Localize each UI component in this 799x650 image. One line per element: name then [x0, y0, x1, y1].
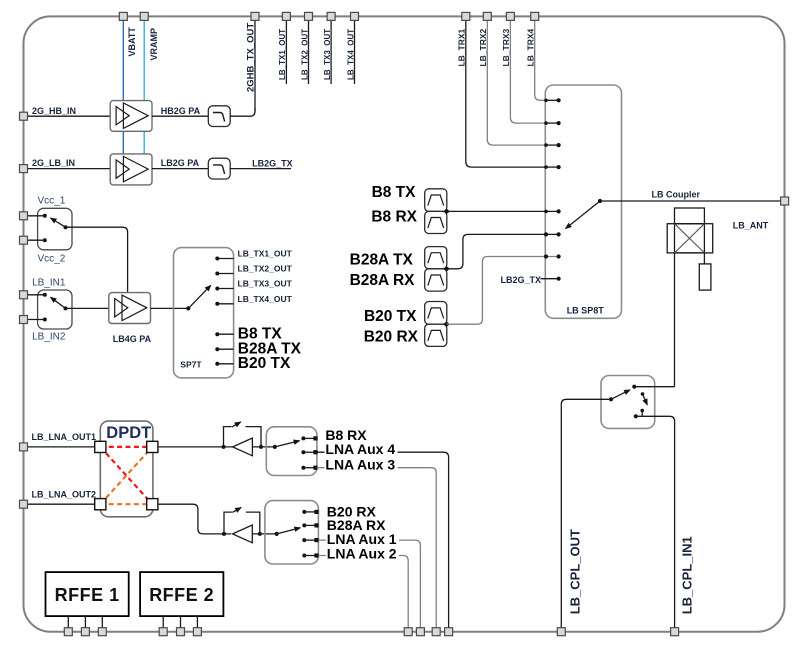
- switch LB_IN SPDT: [38, 290, 72, 329]
- coupler wide box: [667, 224, 713, 253]
- svg-text:LB_TRX2: LB_TRX2: [478, 28, 488, 66]
- svg-text:LNA Aux 4: LNA Aux 4: [325, 441, 395, 457]
- DPDT orange path straight: [100, 503, 152, 505]
- svg-text:LB_CPL_IN1: LB_CPL_IN1: [680, 536, 695, 614]
- terminal LNA Aux 4: [445, 628, 453, 636]
- svg-text:LB_TRX4: LB_TRX4: [526, 28, 536, 66]
- svg-text:LB_TX3_OUT: LB_TX3_OUT: [238, 279, 293, 289]
- LNA2 amplifier: [233, 525, 253, 543]
- svg-text:LB_TX4_OUT: LB_TX4_OUT: [238, 294, 293, 304]
- node SP8T in LB_TRX1: [544, 165, 561, 169]
- node SP8T in B28A: [544, 232, 561, 236]
- wire LB_TX4_OUT stub: [354, 20, 356, 84]
- switch SP7T: [174, 248, 234, 378]
- wire LB4G PA out: [151, 307, 189, 309]
- LNA1 amplifier: [233, 438, 253, 456]
- node B20 junction: [445, 322, 449, 326]
- svg-text:RFFE 1: RFFE 1: [55, 585, 120, 605]
- switch RX1 SP3T: [266, 427, 317, 476]
- svg-text:LB_TX2_OUT: LB_TX2_OUT: [300, 29, 309, 80]
- wire LB2G_TX stub: [230, 168, 291, 170]
- coupler LB_ANT top box: [675, 208, 705, 224]
- RX1 throw LNA Aux 4: [301, 450, 317, 454]
- SP7T throw LB_TX3_OUT: [215, 287, 233, 291]
- wire Vcc_2 in: [27, 239, 45, 241]
- changeover top contact: [632, 385, 674, 389]
- svg-text:LB2G_TX: LB2G_TX: [252, 159, 293, 169]
- svg-text:LB_TX1_OUT: LB_TX1_OUT: [238, 249, 293, 259]
- terminal 2GHB_TX_OUT: [251, 12, 259, 20]
- changeover pole arrow: [609, 390, 630, 402]
- terminal VRAMP: [140, 12, 148, 20]
- wire LB_TX2_OUT stub: [308, 20, 310, 84]
- terminal RFFE2 pin1: [159, 628, 167, 636]
- wire Vcc_1 in: [27, 215, 45, 217]
- block RFFE 1: [46, 572, 129, 616]
- wire B20 to SP8T: [447, 257, 559, 325]
- svg-text:2G_HB_IN: 2G_HB_IN: [32, 106, 76, 116]
- svg-text:B20 RX: B20 RX: [364, 329, 419, 346]
- svg-text:LB_IN1: LB_IN1: [32, 278, 66, 289]
- wire coupler left drop: [674, 253, 676, 387]
- svg-text:LB2G PA: LB2G PA: [161, 158, 200, 168]
- terminal Vcc_1: [20, 212, 28, 220]
- wire LB_CPL_OUT: [561, 399, 611, 628]
- wire LNA Aux 4: [317, 452, 449, 628]
- svg-text:LB_ANT: LB_ANT: [733, 221, 769, 231]
- svg-text:LB_TRX1: LB_TRX1: [457, 28, 467, 66]
- terminal 2G_HB_IN: [20, 112, 28, 120]
- wire LNA Aux 1: [318, 540, 420, 628]
- node SP8T in LB_TRX3: [544, 121, 561, 125]
- wire LNA Aux 2: [318, 556, 408, 628]
- svg-text:LB SP8T: LB SP8T: [567, 306, 605, 316]
- SP7T throw LB_TX2_OUT: [215, 272, 233, 276]
- SP8T pole arrow: [566, 199, 603, 229]
- SP7T throw LB_TX1_OUT: [215, 257, 233, 261]
- svg-text:Vcc_2: Vcc_2: [38, 254, 66, 265]
- wire RFFE2 pin3: [196, 616, 198, 628]
- SP7T throw LB_TX4_OUT: [215, 302, 233, 306]
- DPDT port bottom-left: [95, 499, 106, 510]
- svg-text:LB_CPL_OUT: LB_CPL_OUT: [568, 529, 583, 614]
- terminal RFFE2 pin2: [177, 628, 185, 636]
- terminal RFFE1 pin2: [81, 628, 89, 636]
- wire LB_TRX3: [510, 20, 546, 123]
- svg-text:SP7T: SP7T: [180, 360, 202, 370]
- op-amp LB4G PA: [109, 293, 151, 324]
- wire filter to 2GHB_TX_OUT: [230, 108, 255, 116]
- wire Vcc pole to LB4G PA: [66, 227, 128, 292]
- DPDT red path straight: [100, 446, 152, 448]
- op-amp HB2G PA: [110, 101, 152, 132]
- filter HB2G lowpass: [208, 106, 230, 127]
- wire LB_TRX1: [466, 20, 546, 167]
- terminal 2G_LB_IN: [20, 165, 28, 173]
- svg-text:LNA Aux 1: LNA Aux 1: [327, 531, 397, 547]
- DPDT port top-left: [95, 441, 106, 452]
- terminal LB_TX1_OUT: [282, 12, 290, 20]
- terminal LNA Aux 1: [416, 628, 424, 636]
- terminal LNA Aux 2: [404, 628, 412, 636]
- SP7T throw B20 TX: [215, 362, 233, 366]
- wire LNA1 to RX switch 1: [252, 446, 274, 448]
- SP7T throw B8 TX: [215, 332, 233, 336]
- wire HB2G PA out: [152, 115, 208, 117]
- svg-text:LB_TX1_OUT: LB_TX1_OUT: [278, 29, 287, 80]
- LNA2 bypass switch: [222, 508, 262, 536]
- wire LB_LNA_OUT2: [27, 503, 95, 505]
- terminal LB_LNA_OUT1: [20, 443, 28, 451]
- label LNA Aux 3: [325, 458, 398, 471]
- wire LB_TRX4: [535, 20, 546, 100]
- RX1 throw B8 RX: [301, 436, 317, 440]
- resistor termination: [699, 264, 711, 290]
- filter B28A RX: [425, 269, 447, 291]
- filter B20 RX: [425, 324, 447, 346]
- svg-text:LB_IN2: LB_IN2: [32, 332, 66, 343]
- terminal LB_TX3_OUT: [327, 12, 335, 20]
- svg-text:LNA Aux 2: LNA Aux 2: [327, 546, 397, 562]
- RX1 pole arrow: [273, 441, 300, 449]
- wire RFFE1 pin1: [67, 616, 69, 628]
- SP7T pole: [186, 285, 211, 310]
- terminal LNA Aux 3: [432, 628, 440, 636]
- changeover lower contact stub: [634, 409, 644, 419]
- node SP8T in B20: [544, 254, 561, 258]
- wire LB_LNA_OUT1: [27, 446, 95, 448]
- svg-text:LB_TRX3: LB_TRX3: [501, 28, 511, 66]
- wire LB_IN2 in: [27, 319, 45, 321]
- wire LB2G_TX stub into SP8T: [541, 277, 561, 281]
- RX2 throw B28A RX: [302, 523, 318, 527]
- wire B28A to SP8T: [447, 234, 559, 268]
- wire VRAMP (light blue): [143, 20, 145, 184]
- wire 2GHB_TX_OUT stub: [254, 20, 256, 111]
- wire LB Coupler: [600, 200, 785, 202]
- terminal LB_CPL_IN1: [671, 628, 679, 636]
- changeover second arrow: [641, 392, 648, 405]
- svg-text:LNA Aux 3: LNA Aux 3: [325, 456, 395, 472]
- svg-text:LB_LNA_OUT1: LB_LNA_OUT1: [32, 432, 97, 442]
- svg-text:LB_TX2_OUT: LB_TX2_OUT: [238, 264, 293, 274]
- wire RFFE1 pin3: [101, 616, 103, 628]
- wire coupler to resistor: [703, 253, 705, 264]
- label LNA Aux 4: [325, 443, 398, 456]
- svg-text:2G_LB_IN: 2G_LB_IN: [32, 158, 75, 168]
- svg-text:LB_TX3_OUT: LB_TX3_OUT: [323, 29, 332, 80]
- RX2 throw LNA Aux 2: [302, 553, 318, 557]
- svg-text:HB2G PA: HB2G PA: [161, 106, 201, 116]
- svg-text:VBATT: VBATT: [127, 27, 137, 57]
- SP7T throw B28A TX: [215, 347, 233, 351]
- filter B8 TX: [425, 189, 447, 212]
- wire 2G_HB_IN: [27, 115, 110, 117]
- wire LB_CPL_IN1: [636, 416, 675, 628]
- terminal LB_TRX3: [506, 12, 514, 20]
- wire RFFE2 pin2: [180, 616, 182, 628]
- wire B8 to SP8T: [447, 210, 559, 212]
- node B8 junction: [445, 209, 449, 213]
- RX1 throw LNA Aux 3: [301, 466, 317, 470]
- switch coupler changeover: [601, 376, 655, 429]
- node SP8T in LB_TRX2: [544, 143, 561, 147]
- coupler X square: [675, 224, 705, 253]
- terminal LB_IN1: [20, 291, 28, 299]
- node SP8T in LB_TRX4: [544, 98, 561, 102]
- terminal VBATT: [119, 12, 127, 20]
- svg-text:B20 TX: B20 TX: [364, 308, 417, 325]
- terminal LB_TRX2: [483, 12, 491, 20]
- LNA1 bypass switch: [222, 422, 264, 449]
- wire LB_IN1 in: [27, 294, 45, 296]
- terminal Vcc_2: [20, 236, 28, 244]
- svg-text:B28A TX: B28A TX: [350, 252, 414, 269]
- wire LNA2 to RX switch 2: [252, 533, 276, 535]
- terminal LB_CPL_OUT: [557, 628, 565, 636]
- terminal LB Coupler out: [781, 197, 789, 205]
- terminal LB_TRX4: [531, 12, 539, 20]
- wire LB_IN pole to PA: [66, 307, 109, 309]
- svg-text:LB_TX4_OUT: LB_TX4_OUT: [346, 29, 355, 80]
- terminal RFFE1 pin1: [64, 628, 72, 636]
- svg-text:LB4G PA: LB4G PA: [113, 334, 152, 344]
- wire DPDT to LNA1: [158, 446, 233, 448]
- block RFFE 2: [140, 572, 223, 616]
- svg-text:RFFE 2: RFFE 2: [149, 585, 214, 605]
- svg-text:Vcc_1: Vcc_1: [38, 196, 66, 207]
- svg-text:B20 TX: B20 TX: [238, 355, 291, 372]
- switch LB SP8T: [545, 85, 621, 318]
- filter B8 RX: [425, 211, 447, 233]
- filter B28A TX: [425, 247, 447, 269]
- wire RFFE2 pin1: [162, 616, 164, 628]
- RX2 pole arrow: [275, 528, 301, 536]
- svg-text:B8 TX: B8 TX: [372, 184, 417, 201]
- terminal LB_TRX1: [462, 12, 470, 20]
- DPDT red path cross: [100, 447, 152, 504]
- filter LB2G lowpass: [208, 158, 230, 179]
- svg-text:LB2G_TX: LB2G_TX: [501, 275, 542, 285]
- wire LB_TRX2: [487, 20, 546, 145]
- svg-text:B8 RX: B8 RX: [371, 208, 417, 225]
- label LNA Aux 2: [326, 548, 399, 561]
- svg-text:LB_LNA_OUT2: LB_LNA_OUT2: [32, 490, 97, 500]
- DPDT port bottom-right: [147, 499, 158, 510]
- wire VBATT (blue): [122, 20, 124, 184]
- svg-text:2GHB_TX_OUT: 2GHB_TX_OUT: [246, 23, 257, 92]
- switch Vcc SPDT: [38, 208, 72, 250]
- wire 2G_LB_IN: [27, 168, 110, 170]
- switch RX2 SP4T: [265, 501, 319, 564]
- op-amp LB2G PA: [110, 154, 152, 185]
- terminal RFFE1 pin3: [98, 628, 106, 636]
- filter B20 TX: [425, 302, 447, 325]
- svg-text:VRAMP: VRAMP: [149, 28, 159, 61]
- terminal LB_TX2_OUT: [305, 12, 313, 20]
- wire RFFE1 pin2: [84, 616, 86, 628]
- switch DPDT: [100, 421, 153, 517]
- svg-text:B28A RX: B28A RX: [350, 272, 416, 289]
- wire LB_TX3_OUT stub: [330, 20, 332, 84]
- wire LNA Aux 3: [317, 468, 436, 628]
- svg-text:LB Coupler: LB Coupler: [652, 190, 701, 200]
- DPDT orange path cross: [100, 447, 152, 504]
- wire DPDT to LNA2: [158, 504, 231, 534]
- terminal LB_TX4_OUT: [351, 12, 359, 20]
- svg-text:DPDT: DPDT: [106, 424, 151, 442]
- terminal RFFE2 pin3: [193, 628, 201, 636]
- wire LB_TX1_OUT stub: [285, 20, 287, 84]
- terminal LB_IN2: [20, 316, 28, 324]
- label LNA Aux 1: [326, 533, 399, 546]
- RX2 throw B20 RX: [302, 510, 318, 514]
- node SP8T in B8: [544, 209, 561, 213]
- DPDT port top-right: [147, 441, 158, 452]
- RX2 throw LNA Aux 1: [302, 538, 318, 542]
- wire LB2G PA out: [152, 168, 208, 170]
- node B28A junction: [445, 267, 449, 271]
- terminal LB_LNA_OUT2: [20, 500, 28, 508]
